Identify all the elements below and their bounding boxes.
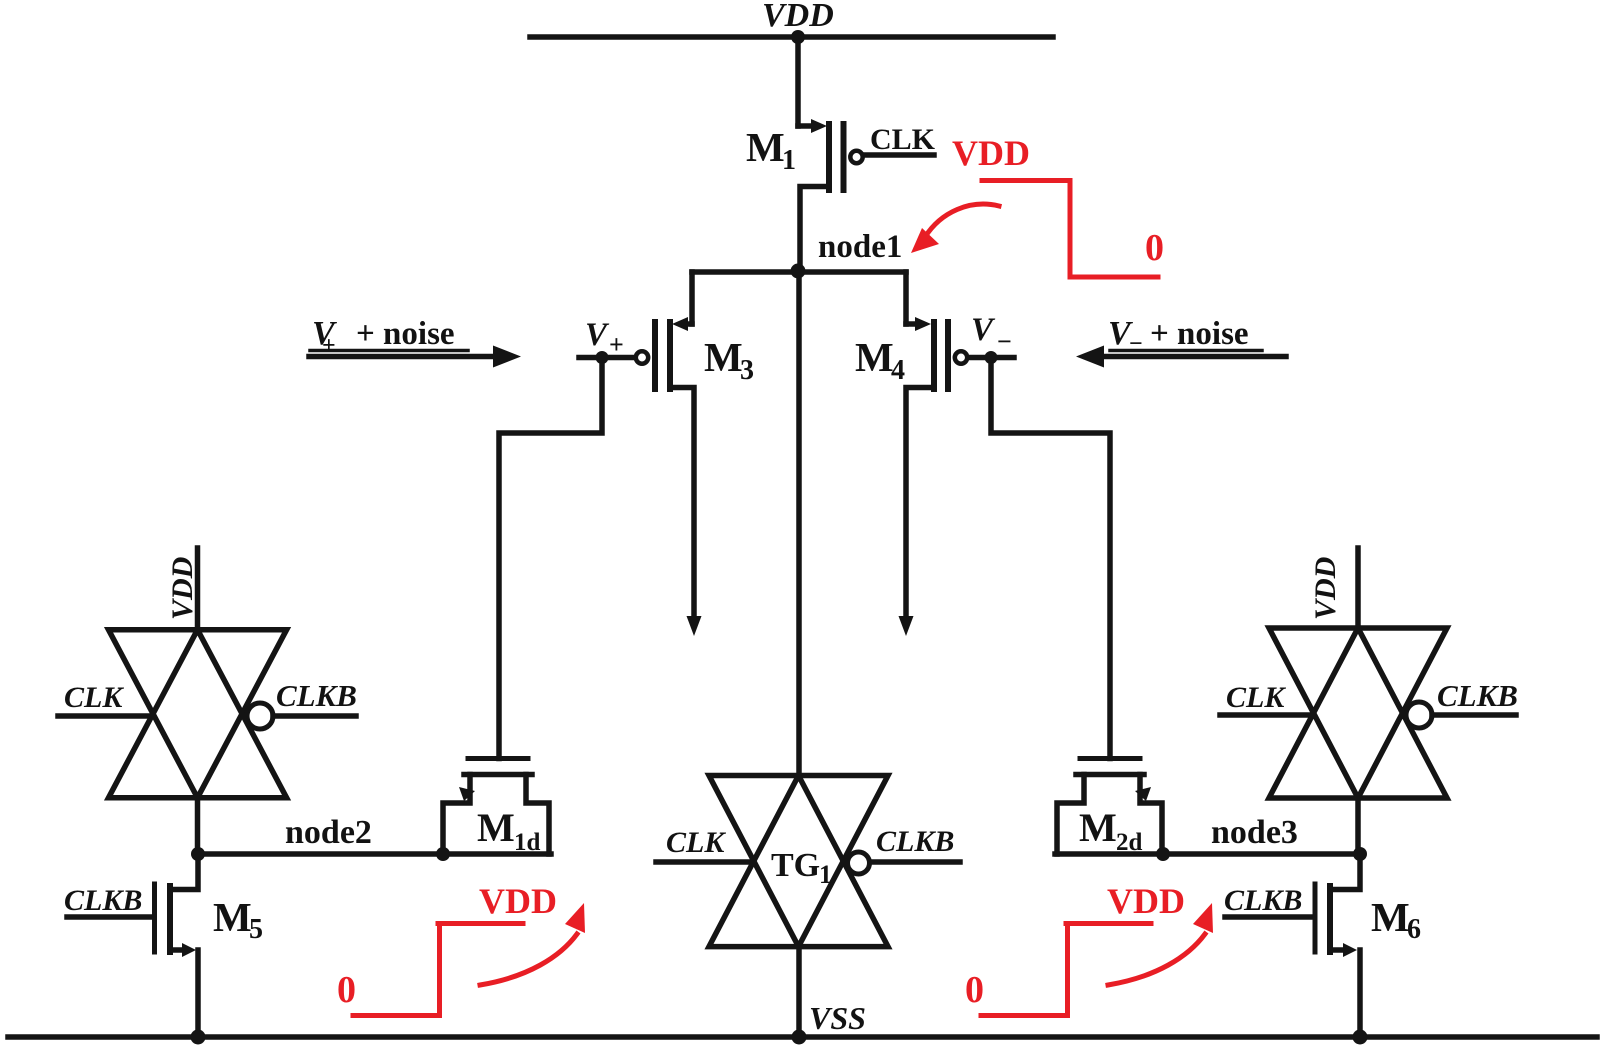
svg-text:+: + — [322, 333, 336, 359]
svg-text:3: 3 — [740, 355, 754, 386]
svg-text:TG: TG — [771, 847, 820, 884]
svg-text:VDD: VDD — [479, 881, 557, 921]
svg-text:CLK: CLK — [666, 826, 726, 859]
svg-text:CLK: CLK — [870, 123, 936, 156]
svg-text:5: 5 — [249, 914, 263, 945]
svg-text:0: 0 — [1145, 227, 1164, 269]
svg-text:node3: node3 — [1211, 814, 1298, 851]
svg-text:−: − — [997, 327, 1012, 356]
svg-text:VDD: VDD — [762, 0, 834, 34]
svg-text:CLK: CLK — [1226, 681, 1286, 714]
svg-text:−: − — [1129, 331, 1143, 357]
svg-text:VDD: VDD — [166, 557, 199, 620]
svg-text:CLKB: CLKB — [276, 678, 357, 713]
svg-text:CLKB: CLKB — [1224, 884, 1302, 917]
svg-text:1d: 1d — [514, 829, 541, 856]
svg-text:6: 6 — [1407, 914, 1421, 945]
svg-text:node2: node2 — [285, 814, 372, 851]
svg-text:node1: node1 — [818, 229, 902, 265]
svg-text:M: M — [1371, 894, 1410, 940]
svg-text:4: 4 — [891, 355, 905, 386]
svg-text:V: V — [971, 312, 996, 348]
svg-text:+: + — [609, 330, 624, 359]
svg-text:VDD: VDD — [1107, 881, 1185, 921]
svg-text:CLKB: CLKB — [1437, 678, 1518, 713]
svg-text:0: 0 — [965, 969, 984, 1011]
svg-text:+ noise: + noise — [1150, 316, 1249, 352]
svg-text:VDD: VDD — [952, 133, 1030, 173]
svg-text:M: M — [477, 805, 515, 850]
svg-text:M: M — [213, 894, 252, 940]
svg-text:V: V — [585, 317, 610, 353]
svg-text:+ noise: + noise — [356, 316, 455, 352]
svg-text:0: 0 — [337, 969, 356, 1011]
svg-text:VSS: VSS — [809, 1000, 866, 1036]
svg-text:M: M — [1079, 805, 1117, 850]
svg-text:M: M — [855, 334, 894, 380]
svg-text:1: 1 — [819, 860, 832, 889]
svg-text:VDD: VDD — [1309, 557, 1342, 620]
svg-text:M: M — [746, 124, 785, 170]
svg-text:2d: 2d — [1116, 829, 1143, 856]
svg-text:CLKB: CLKB — [876, 825, 954, 858]
svg-text:CLKB: CLKB — [64, 884, 142, 917]
svg-text:M: M — [704, 334, 743, 380]
svg-text:CLK: CLK — [64, 681, 124, 714]
svg-text:1: 1 — [782, 145, 796, 176]
